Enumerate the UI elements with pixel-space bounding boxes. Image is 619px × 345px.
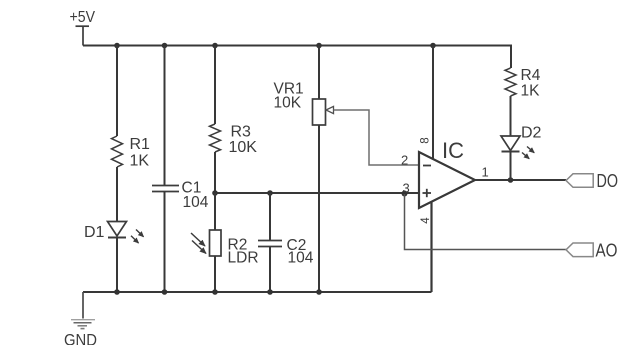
wire rail to VR1 [318,46,320,100]
junction bottom rail / R2 [212,289,218,295]
wire R2 to bottom rail [214,256,216,292]
svg-text:1: 1 [482,165,489,180]
svg-text:LDR: LDR [228,250,259,267]
junction bottom rail / D1 [114,289,120,295]
wire +5V top rail [83,45,511,47]
LED D1 [108,222,144,244]
junction bottom rail / VR1 [316,289,322,295]
resistor R1 [112,136,123,167]
svg-text:3: 3 [403,181,410,196]
wire rail to op-amp pin 8 [432,46,434,160]
wire R3 to node A [214,152,216,193]
svg-text:10K: 10K [229,139,258,156]
wire C1 to bottom rail [164,192,166,293]
svg-text:1K: 1K [130,153,150,170]
wire D1 to bottom rail [116,238,118,293]
wire D2 to DO line [510,152,512,181]
svg-text:AO: AO [596,241,618,261]
junction top rail / VR1 [316,43,322,49]
junction top rail / R1 [114,43,120,49]
resistor R4 [505,68,516,96]
wire R1 to D1 [116,167,118,222]
capacitor C2 [258,241,282,247]
svg-text:R4: R4 [521,67,541,84]
wire op-amp pin 4 to bottom rail [430,202,432,292]
wire rail drop to R4 [510,45,512,69]
capacitor C1 [152,186,179,192]
wire bottom rail [83,291,432,293]
wire rail to C1 [164,46,166,186]
svg-text:D2: D2 [521,125,542,142]
svg-text:DO: DO [597,171,619,191]
connector DO [566,174,593,188]
wire node A to op-amp pin 3 [215,192,419,194]
junction node A / AO branch [402,191,408,197]
svg-text:2: 2 [401,153,408,168]
wire rail to R3 [214,46,216,125]
junction DO line / D2 [508,177,514,183]
op-amp U1 IC [419,152,475,208]
ground [71,320,95,329]
svg-text:+5V: +5V [70,9,96,26]
junction bottom rail / C1 [162,289,168,295]
+5V supply symbol [76,26,90,45]
svg-text:10K: 10K [274,95,302,112]
svg-text:GND: GND [64,331,97,345]
wire R4 to D2 [510,96,512,136]
wire node A to C2 [269,193,271,241]
potentiometer VR1 [313,99,326,125]
junction top rail / C1 [162,43,168,49]
wire C2 to bottom rail [269,247,271,293]
connector AO [566,243,593,257]
junction bottom rail / C2 [267,289,273,295]
svg-text:R3: R3 [231,124,252,141]
svg-text:R1: R1 [130,136,151,153]
resistor R3 [210,124,221,152]
svg-text:D1: D1 [84,224,105,241]
junction top rail / R3 [212,43,218,49]
svg-text:104: 104 [183,194,209,211]
svg-text:104: 104 [288,250,314,267]
svg-text:IC: IC [442,138,464,163]
svg-text:1K: 1K [521,83,541,100]
wire VR1 to bottom rail [318,125,320,292]
LDR R2 [191,230,221,256]
LED D2 [501,136,534,159]
svg-text:8: 8 [420,137,432,143]
wire node A to AO [405,194,567,250]
svg-text:4: 4 [420,217,432,224]
junction top rail / pin8 [430,43,436,49]
wire op-amp output pin 1 to DO [475,179,566,181]
junction node A / C2 [267,190,273,196]
junction node A / R3 R2 [212,190,218,196]
wire ground stem [82,292,84,319]
wire node A to R2 [214,193,216,230]
wire VR1 wiper to op-amp pin 2 [326,106,334,113]
wire rail to R1 [116,46,118,137]
